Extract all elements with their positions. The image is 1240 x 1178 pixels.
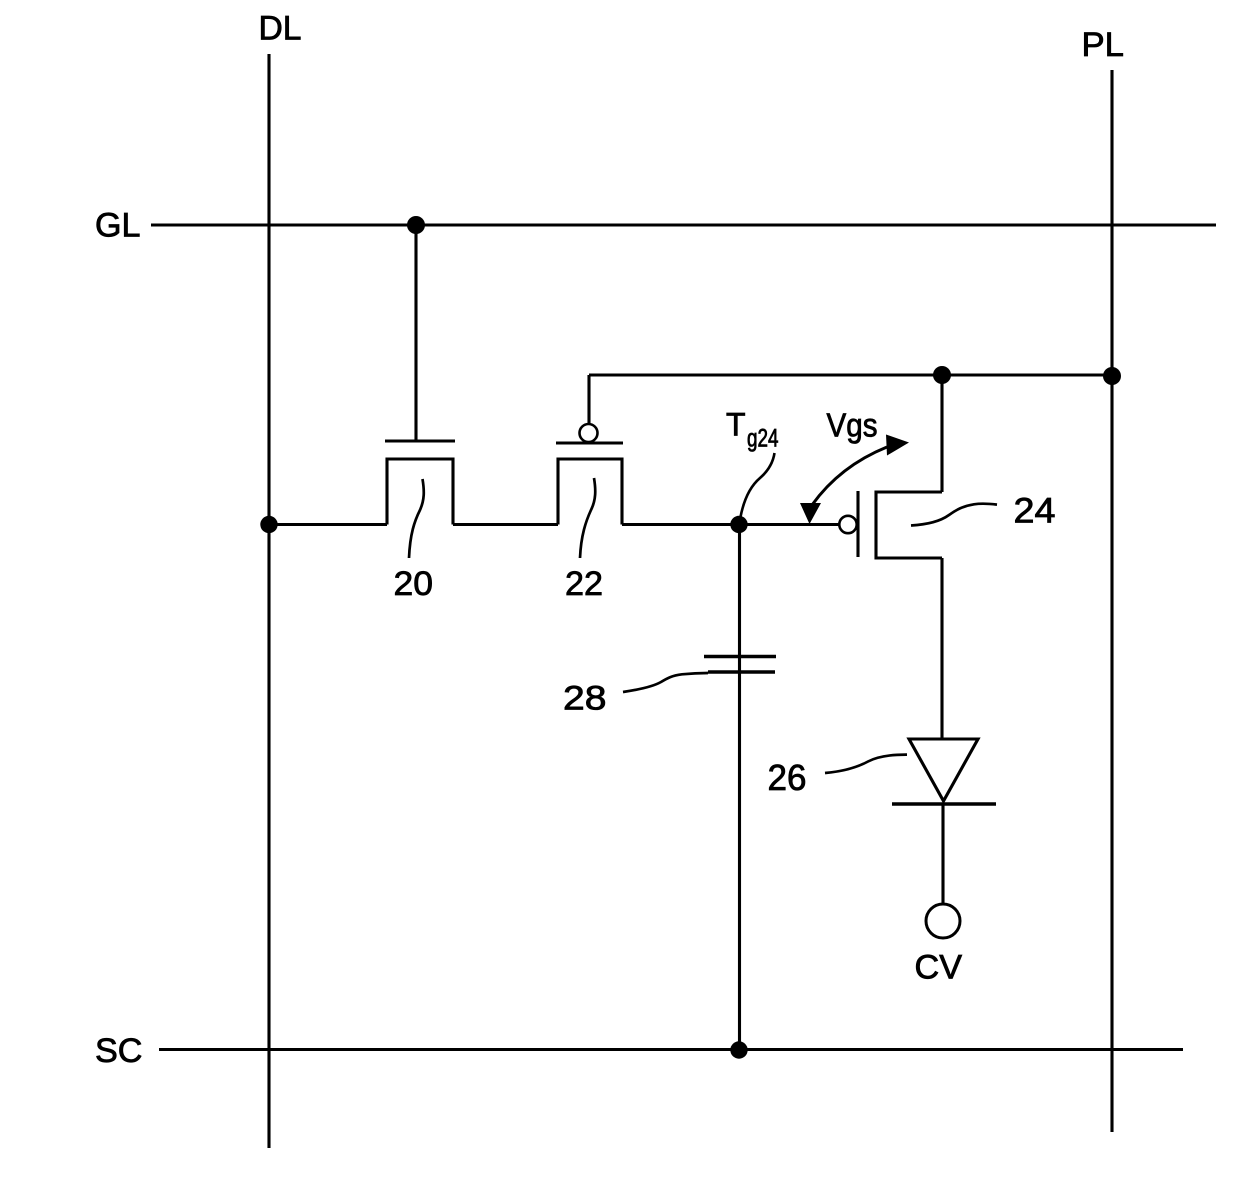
terminal CV circle	[926, 904, 960, 938]
svg-text:20: 20	[394, 565, 434, 603]
svg-text:DL: DL	[259, 10, 302, 48]
wire node Tg24 to gate of transistor 24	[739, 523, 839, 526]
diode 26 triangle	[909, 739, 978, 801]
wire SC horizontal storage line	[159, 1048, 1183, 1051]
wire transistor 24 source down to diode 26	[940, 558, 943, 738]
junction dot top wire and drain of 24	[933, 366, 951, 384]
svg-text:T: T	[726, 407, 746, 443]
wire PL vertical power line	[1110, 70, 1113, 1132]
wire node Tg24 down to SC through capacitor 28	[738, 525, 741, 1050]
capacitor 28 top plate	[704, 655, 776, 659]
Vgs arrowhead right	[886, 435, 909, 456]
wire gate of transistor 20 from GL	[414, 225, 417, 441]
transistor 22 gate bubble	[580, 424, 598, 442]
svg-text:26: 26	[768, 757, 807, 798]
transistor 24 gate bubble	[839, 516, 856, 533]
wire row segment between transistor 20 and 22	[453, 523, 558, 526]
junction dot top wire and PL	[1103, 367, 1121, 385]
leader for label 24	[911, 504, 997, 526]
transistor 22 gate bar	[556, 441, 623, 444]
junction dot capacitor branch and SC	[730, 1041, 747, 1058]
svg-text:28: 28	[563, 680, 607, 718]
leader for label 28	[623, 673, 708, 692]
svg-text:GL: GL	[95, 207, 141, 245]
wire row segment DL to transistor 20	[269, 523, 387, 526]
svg-text:24: 24	[1014, 492, 1056, 531]
leader squiggle from label Tg24 to node	[741, 453, 775, 517]
svg-text:22: 22	[565, 565, 603, 603]
svg-text:Vgs: Vgs	[827, 407, 878, 444]
wire diode 26 to terminal CV	[941, 804, 944, 904]
svg-text:CV: CV	[915, 949, 963, 987]
transistor 24 channel	[876, 492, 942, 558]
junction dot GL and gate of 20	[407, 216, 425, 234]
leader squiggle for label 22	[580, 478, 595, 558]
svg-text:g24: g24	[747, 425, 779, 453]
leader for label 26	[825, 755, 907, 773]
junction node Tg24	[730, 516, 747, 533]
transistor 24 gate bar	[856, 491, 859, 557]
transistor 20 gate bar	[385, 439, 455, 442]
wire DL vertical data line	[267, 54, 270, 1148]
transistor 22 channel	[558, 459, 622, 525]
diode 26 cathode bar	[892, 802, 996, 806]
capacitor 28 bottom plate	[708, 670, 775, 674]
Vgs curved arrow body	[812, 447, 887, 505]
wire row segment transistor 22 to node Tg24	[622, 523, 739, 526]
junction dot DL and row wire	[260, 516, 277, 533]
svg-text:PL: PL	[1082, 26, 1125, 64]
wire top horizontal to PL	[589, 373, 1112, 376]
wire GL horizontal gate line	[151, 223, 1216, 226]
svg-text:SC: SC	[95, 1032, 143, 1070]
wire transistor 22 gate riser	[587, 375, 590, 424]
wire transistor 24 drain up to top wire	[940, 375, 943, 492]
transistor 20 channel	[387, 459, 453, 525]
leader squiggle for label 20	[409, 479, 424, 558]
Vgs arrowhead down at gate wire	[800, 503, 821, 524]
